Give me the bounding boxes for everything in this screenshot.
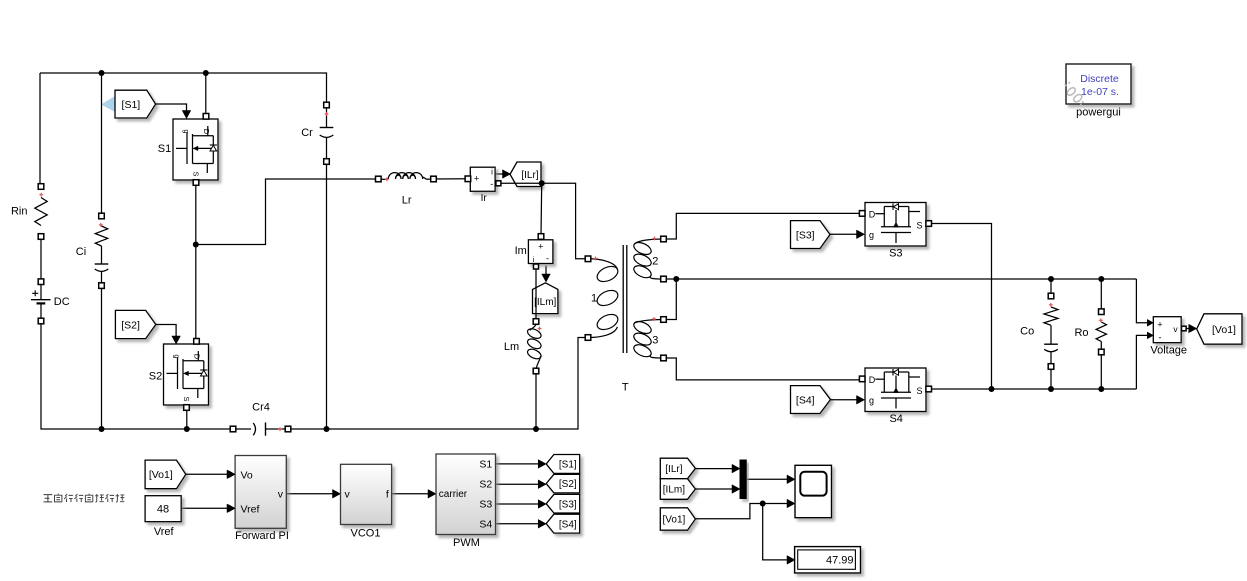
svg-text:Voltage: Voltage [1150, 345, 1187, 357]
svg-text:Vo: Vo [241, 469, 253, 481]
svg-text:[Vo1]: [Vo1] [1212, 324, 1236, 336]
svg-text:-: - [490, 179, 493, 189]
svg-text:S3: S3 [479, 499, 492, 511]
svg-text:+: + [538, 242, 543, 252]
svg-text:[S1]: [S1] [559, 460, 577, 471]
svg-text:[ILm]: [ILm] [663, 485, 685, 496]
svg-text:carrier: carrier [439, 489, 468, 500]
svg-text:48: 48 [157, 504, 169, 516]
svg-text:1e-07 s.: 1e-07 s. [1081, 86, 1119, 98]
svg-text:Ro: Ro [1074, 327, 1088, 339]
svg-text:2: 2 [652, 256, 658, 268]
svg-text:PWM: PWM [453, 537, 480, 549]
svg-text:Vref: Vref [154, 526, 175, 538]
svg-text:Lm: Lm [504, 341, 519, 353]
svg-text:[ILr]: [ILr] [521, 170, 538, 181]
svg-text:[S4]: [S4] [559, 519, 577, 530]
svg-text:S4: S4 [479, 518, 492, 530]
svg-text:S3: S3 [889, 248, 902, 260]
svg-text:[Vo1]: [Vo1] [149, 469, 173, 481]
svg-text:v: v [345, 489, 351, 501]
svg-text:1: 1 [591, 293, 597, 305]
svg-text:g: g [869, 395, 874, 405]
svg-text:[Vo1]: [Vo1] [662, 515, 685, 526]
svg-text:[S2]: [S2] [559, 479, 577, 490]
svg-text:powergui: powergui [1076, 107, 1121, 119]
svg-text:g: g [173, 354, 182, 358]
svg-text:Discrete: Discrete [1080, 73, 1119, 85]
svg-text:S2: S2 [479, 479, 492, 491]
svg-text:VCO1: VCO1 [351, 528, 381, 540]
svg-text:[S4]: [S4] [796, 394, 815, 406]
svg-text:Ir: Ir [481, 193, 488, 204]
svg-text:Ci: Ci [76, 246, 86, 258]
svg-text:[S3]: [S3] [796, 229, 815, 241]
svg-text:S2: S2 [149, 370, 162, 382]
svg-text:Cr: Cr [301, 127, 313, 139]
svg-text:47.99: 47.99 [826, 554, 854, 566]
svg-text:i: i [491, 168, 493, 177]
svg-text:D: D [869, 210, 876, 220]
svg-text:Rin: Rin [11, 206, 28, 218]
svg-text:[S3]: [S3] [559, 499, 577, 510]
svg-text:f: f [386, 488, 389, 500]
svg-text:S4: S4 [889, 413, 902, 425]
svg-text:-: - [1158, 333, 1161, 344]
svg-text:S1: S1 [158, 143, 171, 155]
svg-text:Lr: Lr [402, 195, 412, 207]
svg-text:+: + [474, 174, 479, 184]
svg-text:[S1]: [S1] [122, 99, 141, 111]
svg-text:v: v [278, 489, 284, 501]
svg-text:D: D [869, 375, 876, 385]
svg-text:[ILr]: [ILr] [665, 464, 682, 475]
svg-text:Forward PI: Forward PI [235, 530, 289, 542]
svg-text:Cr4: Cr4 [252, 402, 270, 414]
svg-text:[S2]: [S2] [121, 319, 140, 331]
svg-text:-: - [546, 254, 549, 264]
svg-text:D: D [202, 129, 211, 135]
svg-text:[ILm]: [ILm] [534, 297, 556, 308]
svg-text:T: T [622, 382, 629, 394]
svg-text:S: S [916, 386, 922, 396]
svg-text:+: + [1157, 319, 1162, 329]
svg-text:D: D [193, 354, 202, 360]
svg-text:S1: S1 [479, 459, 492, 471]
svg-text:Co: Co [1020, 326, 1034, 338]
svg-text:S: S [192, 171, 201, 176]
svg-text:3: 3 [652, 335, 658, 347]
svg-text:g: g [869, 230, 874, 240]
svg-text:S: S [182, 396, 191, 401]
svg-text:Im: Im [515, 245, 527, 257]
svg-text:S: S [916, 221, 922, 231]
svg-text:DC: DC [54, 296, 70, 308]
svg-text:g: g [182, 129, 191, 133]
svg-text:Vref: Vref [241, 503, 260, 515]
